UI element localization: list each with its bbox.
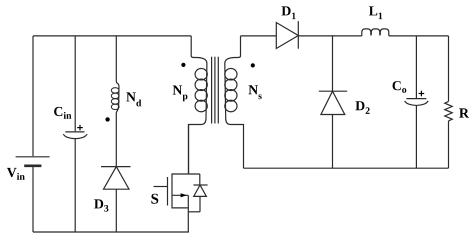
- wire right edge upper (R branch): [448, 36, 450, 102]
- inductor L1: [362, 29, 389, 36]
- diode D1: [276, 21, 298, 49]
- label Cin: [54, 107, 71, 119]
- wire right edge lower: [448, 121, 450, 168]
- label D1: [282, 6, 296, 19]
- body diode of S: [188, 174, 207, 212]
- wire Np bottom to drain: [188, 125, 190, 175]
- transistor S (MOSFET): gate lead: [154, 186, 168, 188]
- wire L1 to right corner: [389, 35, 449, 37]
- diode D3: [101, 167, 131, 190]
- transformer secondary winding Ns: lead, strand, loops: [225, 36, 244, 168]
- wire D2 branch lower: [332, 115, 334, 169]
- wire primary top rail: [33, 35, 191, 37]
- label Co: [393, 81, 407, 93]
- wire Co branch upper: [415, 36, 417, 98]
- polarity dot Ns: [251, 63, 255, 67]
- capacitor Cin: [63, 132, 87, 139]
- wire left branch upper (Vin top): [32, 36, 34, 156]
- wire secondary bottom rail: [244, 167, 449, 169]
- resistor R: [445, 101, 452, 121]
- label D2: [355, 101, 369, 114]
- wire Cin branch lower: [74, 139, 76, 232]
- label Vin: [7, 168, 25, 180]
- wire Cin branch upper: [74, 36, 76, 131]
- plus sign Co: [419, 91, 425, 97]
- inductor Nd (demagnetizing winding): lead, loops, exit: [111, 36, 119, 167]
- battery Vin: [16, 157, 50, 166]
- transistor S body line with arrow: [172, 194, 188, 196]
- transformer primary winding Np: lead, strand, loops: [189, 36, 207, 174]
- label Np: [173, 86, 188, 102]
- polarity dot Np: [181, 63, 185, 67]
- transformer core: [212, 57, 219, 124]
- wire secondary top rail left (Ns to D1): [241, 35, 277, 37]
- transistor S drain connection: [172, 173, 200, 175]
- label D3: [94, 199, 108, 211]
- transistor S channel bar: [171, 173, 173, 208]
- polarity dot Nd: [105, 117, 109, 121]
- diode D2: [319, 91, 347, 114]
- transistor S gate bar: [167, 177, 169, 206]
- wire Co branch lower: [415, 106, 417, 169]
- wire D2 branch upper: [332, 36, 334, 91]
- plus sign Cin: [77, 125, 83, 131]
- label R: [459, 108, 469, 117]
- label Nd: [126, 92, 141, 106]
- label L1: [369, 6, 382, 19]
- wire source to bottom rail: [187, 195, 189, 232]
- wire D3 to bottom rail: [115, 189, 117, 232]
- capacitor Co: [405, 99, 429, 106]
- label Ns: [249, 85, 262, 99]
- wire left branch lower (Vin bottom): [32, 166, 34, 232]
- label S: [151, 194, 158, 204]
- transistor S source connection: [172, 207, 188, 209]
- wire primary bottom rail: [33, 231, 189, 233]
- wire D1 to L1: [298, 35, 362, 37]
